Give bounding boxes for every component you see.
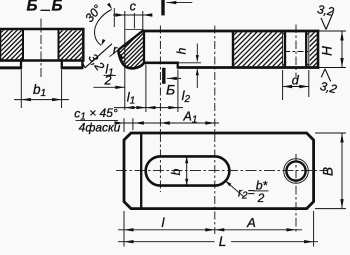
right extension line below plan: [313, 211, 315, 247]
l2 extension line: [177, 70, 179, 113]
l1 l2 dimension line: [114, 107, 183, 109]
svg-text:B: B: [321, 167, 336, 176]
svg-text:Б: Б: [166, 82, 175, 98]
l1/2 dimension arrow: [94, 86, 125, 88]
front view right end edge: [317, 30, 320, 69]
svg-text:h: h: [175, 47, 189, 54]
dimension l and A line: [118, 229, 302, 231]
dimension B extension lines: [315, 132, 346, 134]
front view step edge: [177, 62, 179, 69]
svg-text:A: A: [246, 215, 256, 230]
threaded hole chamfer edges: [283, 33, 287, 37]
plan view slot: [146, 156, 230, 185]
dimension h lower arrow: [196, 69, 198, 88]
dimension H extension lines: [319, 30, 346, 32]
section B-B slot edge left: [22, 29, 24, 61]
svg-text:Б: Б: [27, 0, 38, 15]
nose hatching: [114, 29, 146, 69]
svg-text:L: L: [219, 234, 227, 249]
threaded hole plan outer thread circle: [284, 159, 309, 184]
svg-text:d: d: [292, 74, 300, 88]
nose incline thin extension: [110, 50, 119, 57]
dimension L line: [118, 241, 215, 243]
plan view main horizontal centerline: [116, 170, 327, 172]
front view bottom left edge: [143, 61, 179, 64]
dimension b1 extension lines: [20, 70, 22, 109]
section B-B right foot: [62, 61, 83, 69]
section B-B body outline: [0, 29, 83, 61]
section B-B slot edge right: [58, 29, 60, 61]
svg-text:2: 2: [104, 74, 112, 88]
dimension b inside slot: [186, 156, 188, 185]
dimension b1 line and arrows: [14, 99, 69, 101]
plan view outline with chamfered corners: [124, 133, 314, 209]
short reference line near 30 deg arc: [113, 8, 115, 27]
dimension h upper arrow: [196, 44, 198, 62]
slot left center vertical centerline: [159, 26, 161, 193]
section B-B hatch right block: [57, 29, 84, 61]
threaded hole bore lines: [284, 32, 286, 66]
A1 arrows: [160, 121, 170, 124]
dimension d extension lines: [282, 70, 284, 100]
dimension c line with outside arrows: [113, 14, 153, 16]
section trace B lower thick mark: [162, 68, 165, 84]
threaded hole centerline: [295, 25, 297, 78]
threaded hole plan bore circle: [286, 161, 305, 180]
bottom edge thin extension for h: [179, 62, 201, 64]
dimension H line: [341, 31, 343, 68]
top edge thin extension at nose: [126, 28, 144, 30]
dimension c extension lines: [124, 11, 126, 110]
30 deg angle arc: [95, 10, 112, 46]
left extension line below plan: [123, 211, 125, 247]
section B-B left foot: [0, 61, 21, 69]
short extension line above nose corner: [133, 13, 135, 29]
section B-B centerline: [40, 19, 42, 78]
svg-text:Б: Б: [52, 0, 63, 15]
svg-text:3,2: 3,2: [316, 2, 335, 19]
svg-text:4фаски: 4фаски: [79, 121, 121, 135]
svg-text:2: 2: [257, 191, 265, 205]
section trace B lower arrow: [167, 77, 181, 79]
svg-text:b: b: [169, 168, 183, 175]
dimension d line: [283, 86, 309, 88]
dimension B line: [341, 133, 343, 209]
r leader arrow: [118, 54, 123, 58]
c1 extension lines: [123, 118, 125, 132]
svg-text:H: H: [320, 46, 335, 56]
roughness 3,2 bottom right: [321, 69, 325, 78]
local section break line right: [232, 31, 234, 68]
nose underside curve radius r: [118, 50, 144, 69]
section B-B hatch left block: [0, 29, 24, 61]
nose inclined face 30deg: [118, 30, 143, 50]
c1 outside arrows: [115, 121, 125, 124]
plan view nose edge line: [140, 133, 142, 209]
dimension c1 and A1 line: [117, 122, 219, 124]
front view top edge: [143, 30, 319, 33]
section trace B upper arrow: [167, 2, 193, 4]
front view bottom right edge: [178, 66, 320, 69]
right local section hatch left of hole: [232, 32, 284, 67]
svg-text:c: c: [130, 0, 137, 14]
roughness mark on incline 3,2: [85, 44, 112, 68]
l1 extension line: [145, 65, 147, 113]
slot right center vertical centerline: [214, 26, 216, 235]
nose local-section boundary: [143, 30, 145, 63]
right local section hatch right of hole: [308, 32, 318, 67]
hole vertical centerline: [295, 154, 297, 234]
section trace B upper thick mark: [161, 0, 164, 15]
threaded hole thread lines: [282, 32, 284, 66]
r2 leader: [225, 181, 243, 197]
